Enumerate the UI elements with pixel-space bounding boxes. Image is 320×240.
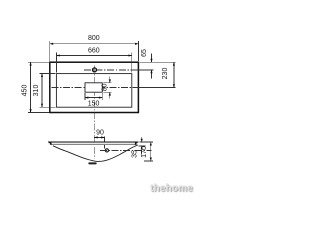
dim 90 line — [94, 136, 104, 138]
drain stub under bowl — [88, 162, 96, 164]
dim 65 line lower leg — [151, 70, 153, 79]
svg-text:65: 65 — [141, 49, 148, 57]
basin inner rim rectangle (plan view) — [56, 74, 131, 108]
dim 800 line — [50, 43, 139, 45]
dim 230 line — [173, 62, 175, 87]
vertical centerline (faucet/drain axis) — [93, 66, 95, 159]
dim 35/170 top extension line — [139, 141, 152, 143]
horizontal centerline through faucet hole — [84, 69, 138, 71]
dim 90 right extension line — [104, 137, 106, 149]
dim 170 line — [150, 142, 152, 161]
dim 660 line — [56, 55, 131, 57]
basin outer rectangle (plan view) — [50, 62, 139, 112]
drain/overflow box 150x80 — [85, 83, 102, 92]
svg-text:80: 80 — [101, 83, 108, 91]
dim 35 bottom extension line — [139, 145, 146, 147]
bowl curve — [53, 145, 138, 162]
deck left wedge tip — [48, 142, 52, 146]
watermark — [150, 183, 193, 194]
dim 450 line — [30, 62, 32, 112]
overflow centerline — [100, 149, 152, 151]
dim 65 extension line (top edge extended) — [139, 61, 175, 63]
dim 310 line — [41, 74, 43, 108]
svg-text:90: 90 — [96, 130, 104, 137]
front view deck bottom line — [50, 144, 137, 146]
svg-text:450: 450 — [22, 85, 29, 97]
deck right wedge tip — [135, 142, 139, 146]
dim 450 extension lines — [28, 61, 49, 63]
svg-text:35: 35 — [131, 150, 138, 158]
svg-text:800: 800 — [88, 35, 100, 42]
dim 35 line with outside arrows — [141, 137, 143, 142]
overflow hole — [105, 149, 108, 152]
horizontal centerline through drain box — [52, 87, 134, 89]
faucet hole — [93, 68, 97, 72]
svg-text:660: 660 — [88, 47, 100, 54]
dim 170 bottom extension line — [144, 160, 153, 162]
dim 800 extension lines — [49, 41, 51, 61]
dim 80 line with outside arrows — [109, 77, 111, 83]
dim 660 extension lines — [55, 53, 57, 73]
svg-text:310: 310 — [33, 85, 40, 97]
dim 150 extension lines — [84, 93, 86, 100]
svg-text:170: 170 — [141, 146, 148, 158]
dim 65 line upper leg — [151, 54, 153, 63]
dim 80 extension lines — [103, 82, 111, 84]
deck slab fill — [49, 142, 139, 144]
front view deck top line — [48, 141, 138, 143]
svg-text:150: 150 — [88, 100, 100, 107]
dim 150 line — [85, 97, 102, 99]
svg-text:230: 230 — [162, 68, 169, 80]
dim 310 extension lines — [40, 73, 56, 75]
